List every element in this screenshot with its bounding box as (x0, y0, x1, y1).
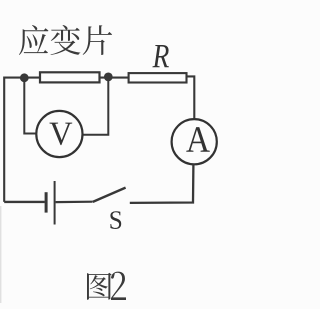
battery positive plate (long) (54, 181, 56, 225)
battery negative plate (short) (45, 192, 48, 212)
resistor R body (129, 73, 187, 82)
wire: voltmeter branch right (82, 81, 108, 135)
voltmeter circle (36, 111, 82, 157)
caption 图 (87, 273, 112, 300)
wire: left vertical + top run (4, 78, 128, 202)
wire: battery to switch hinge (56, 201, 93, 204)
scan artifact left edge (0, 206, 1, 303)
node dot left (20, 73, 29, 82)
resistor: strain gauge body (40, 72, 100, 82)
label A (186, 127, 209, 152)
label S (110, 211, 121, 229)
wire: voltmeter branch left (24, 81, 36, 134)
node dot right (104, 73, 113, 82)
wire: R to ammeter top (186, 76, 194, 119)
caption digit 2 (111, 272, 126, 300)
label V (50, 123, 73, 146)
wire: bottom-left run to battery (4, 201, 45, 203)
wire: ammeter bottom to bottom-right corner (130, 164, 194, 203)
switch S blade (open) (93, 188, 126, 202)
label R (152, 45, 168, 67)
label 应变片 (strain gauge) (19, 25, 112, 55)
ammeter circle (172, 119, 217, 164)
